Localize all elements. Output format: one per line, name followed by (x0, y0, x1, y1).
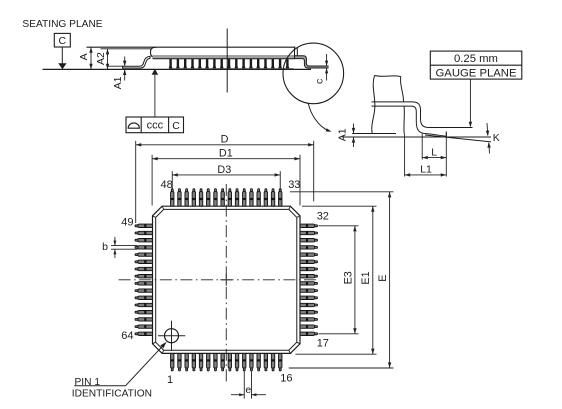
datum C symbol (54, 33, 70, 69)
svg-text:D1: D1 (219, 147, 233, 159)
body top second line (101, 48, 153, 50)
dimension E (289, 192, 394, 368)
dimension D1 (152, 147, 300, 205)
side view body end (151, 47, 157, 57)
gauge plane leader (469, 79, 472, 127)
lead underside extension line (107, 65, 124, 67)
package body outline (153, 206, 301, 353)
dimension L (422, 132, 446, 177)
svg-text:0.25 mm: 0.25 mm (454, 53, 498, 65)
detail circle (283, 43, 344, 104)
svg-text:GAUGE PLANE: GAUGE PLANE (436, 68, 517, 80)
dimension A1 (112, 57, 126, 90)
svg-text:C: C (172, 120, 180, 132)
svg-text:E: E (377, 275, 389, 282)
pin number 48 (161, 179, 173, 191)
side view bent lead (123, 56, 151, 68)
svg-text:K: K (493, 132, 500, 144)
svg-text:IDENTIFICATION: IDENTIFICATION (72, 389, 152, 400)
svg-text:A1: A1 (337, 128, 349, 141)
svg-text:1: 1 (167, 374, 173, 386)
pin number 16 (280, 373, 292, 385)
right pin column (32..17) (300, 224, 318, 335)
svg-text:A2: A2 (95, 52, 107, 65)
dimension c (314, 54, 329, 84)
dimension K (486, 123, 500, 154)
package body inner outline (156, 209, 297, 350)
svg-text:ccc: ccc (147, 119, 164, 131)
dimension A (78, 47, 93, 69)
svg-text:c: c (314, 79, 326, 84)
svg-text:L: L (431, 146, 437, 158)
svg-text:17: 17 (317, 337, 329, 349)
pin number 49 (121, 216, 133, 228)
dimension D (136, 133, 314, 223)
seating plane line (43, 68, 312, 70)
body bevel facets (153, 206, 301, 353)
svg-text:D3: D3 (217, 164, 231, 176)
svg-text:E3: E3 (342, 271, 354, 284)
side view lead band (153, 55, 295, 59)
pin number 33 (288, 179, 300, 191)
vertical centerline (225, 184, 227, 384)
dimension b (102, 237, 137, 258)
svg-text:A: A (78, 53, 90, 60)
enlarged A1 dimension (337, 124, 356, 148)
svg-text:PIN 1: PIN 1 (75, 377, 101, 388)
pin 1 identification label (72, 342, 167, 400)
ccc leader arrow (152, 69, 159, 117)
pin number 64 (121, 330, 133, 342)
svg-text:SEATING PLANE: SEATING PLANE (22, 19, 102, 30)
horizontal centerline (119, 279, 318, 281)
pin number 17 (317, 337, 329, 349)
dimension A2 (95, 49, 109, 70)
gauge plane box (430, 51, 522, 79)
enlarged seating line (342, 136, 491, 138)
left pin column (49..64) (135, 224, 153, 335)
side view leads comb (169, 59, 294, 70)
package top line (87, 46, 296, 48)
svg-text:33: 33 (288, 179, 300, 191)
svg-text:b: b (102, 241, 108, 253)
dimension D3 (172, 164, 280, 190)
svg-text:32: 32 (317, 210, 329, 222)
svg-text:E1: E1 (360, 271, 372, 284)
svg-text:16: 16 (280, 373, 292, 385)
dimension L1 (405, 134, 447, 177)
pin number 32 (317, 210, 329, 222)
svg-text:A1: A1 (112, 76, 124, 89)
detail leader curve (308, 103, 331, 132)
svg-text:e: e (245, 384, 251, 396)
dimension e (231, 371, 266, 399)
bottom pin row (1..16) (171, 353, 282, 371)
svg-text:64: 64 (121, 330, 133, 342)
dimension E3 (319, 226, 359, 334)
svg-text:C: C (59, 35, 67, 47)
svg-text:D: D (221, 133, 229, 145)
top pin row (48..33) (171, 189, 282, 207)
svg-text:L1: L1 (420, 164, 432, 176)
dimension E1 (295, 206, 376, 354)
enlarged body bottom line (354, 133, 397, 135)
pin 1 marker (158, 321, 185, 351)
ccc tolerance frame (126, 117, 184, 133)
pin number 1 (167, 374, 173, 386)
detail lead in circle (295, 47, 329, 68)
svg-text:49: 49 (121, 216, 133, 228)
side view centerline (226, 29, 228, 93)
enlarged lead (372, 102, 473, 136)
svg-text:48: 48 (161, 179, 173, 191)
enlarged body section (372, 76, 405, 134)
seating plane label (22, 19, 102, 30)
K slant line (425, 135, 491, 142)
